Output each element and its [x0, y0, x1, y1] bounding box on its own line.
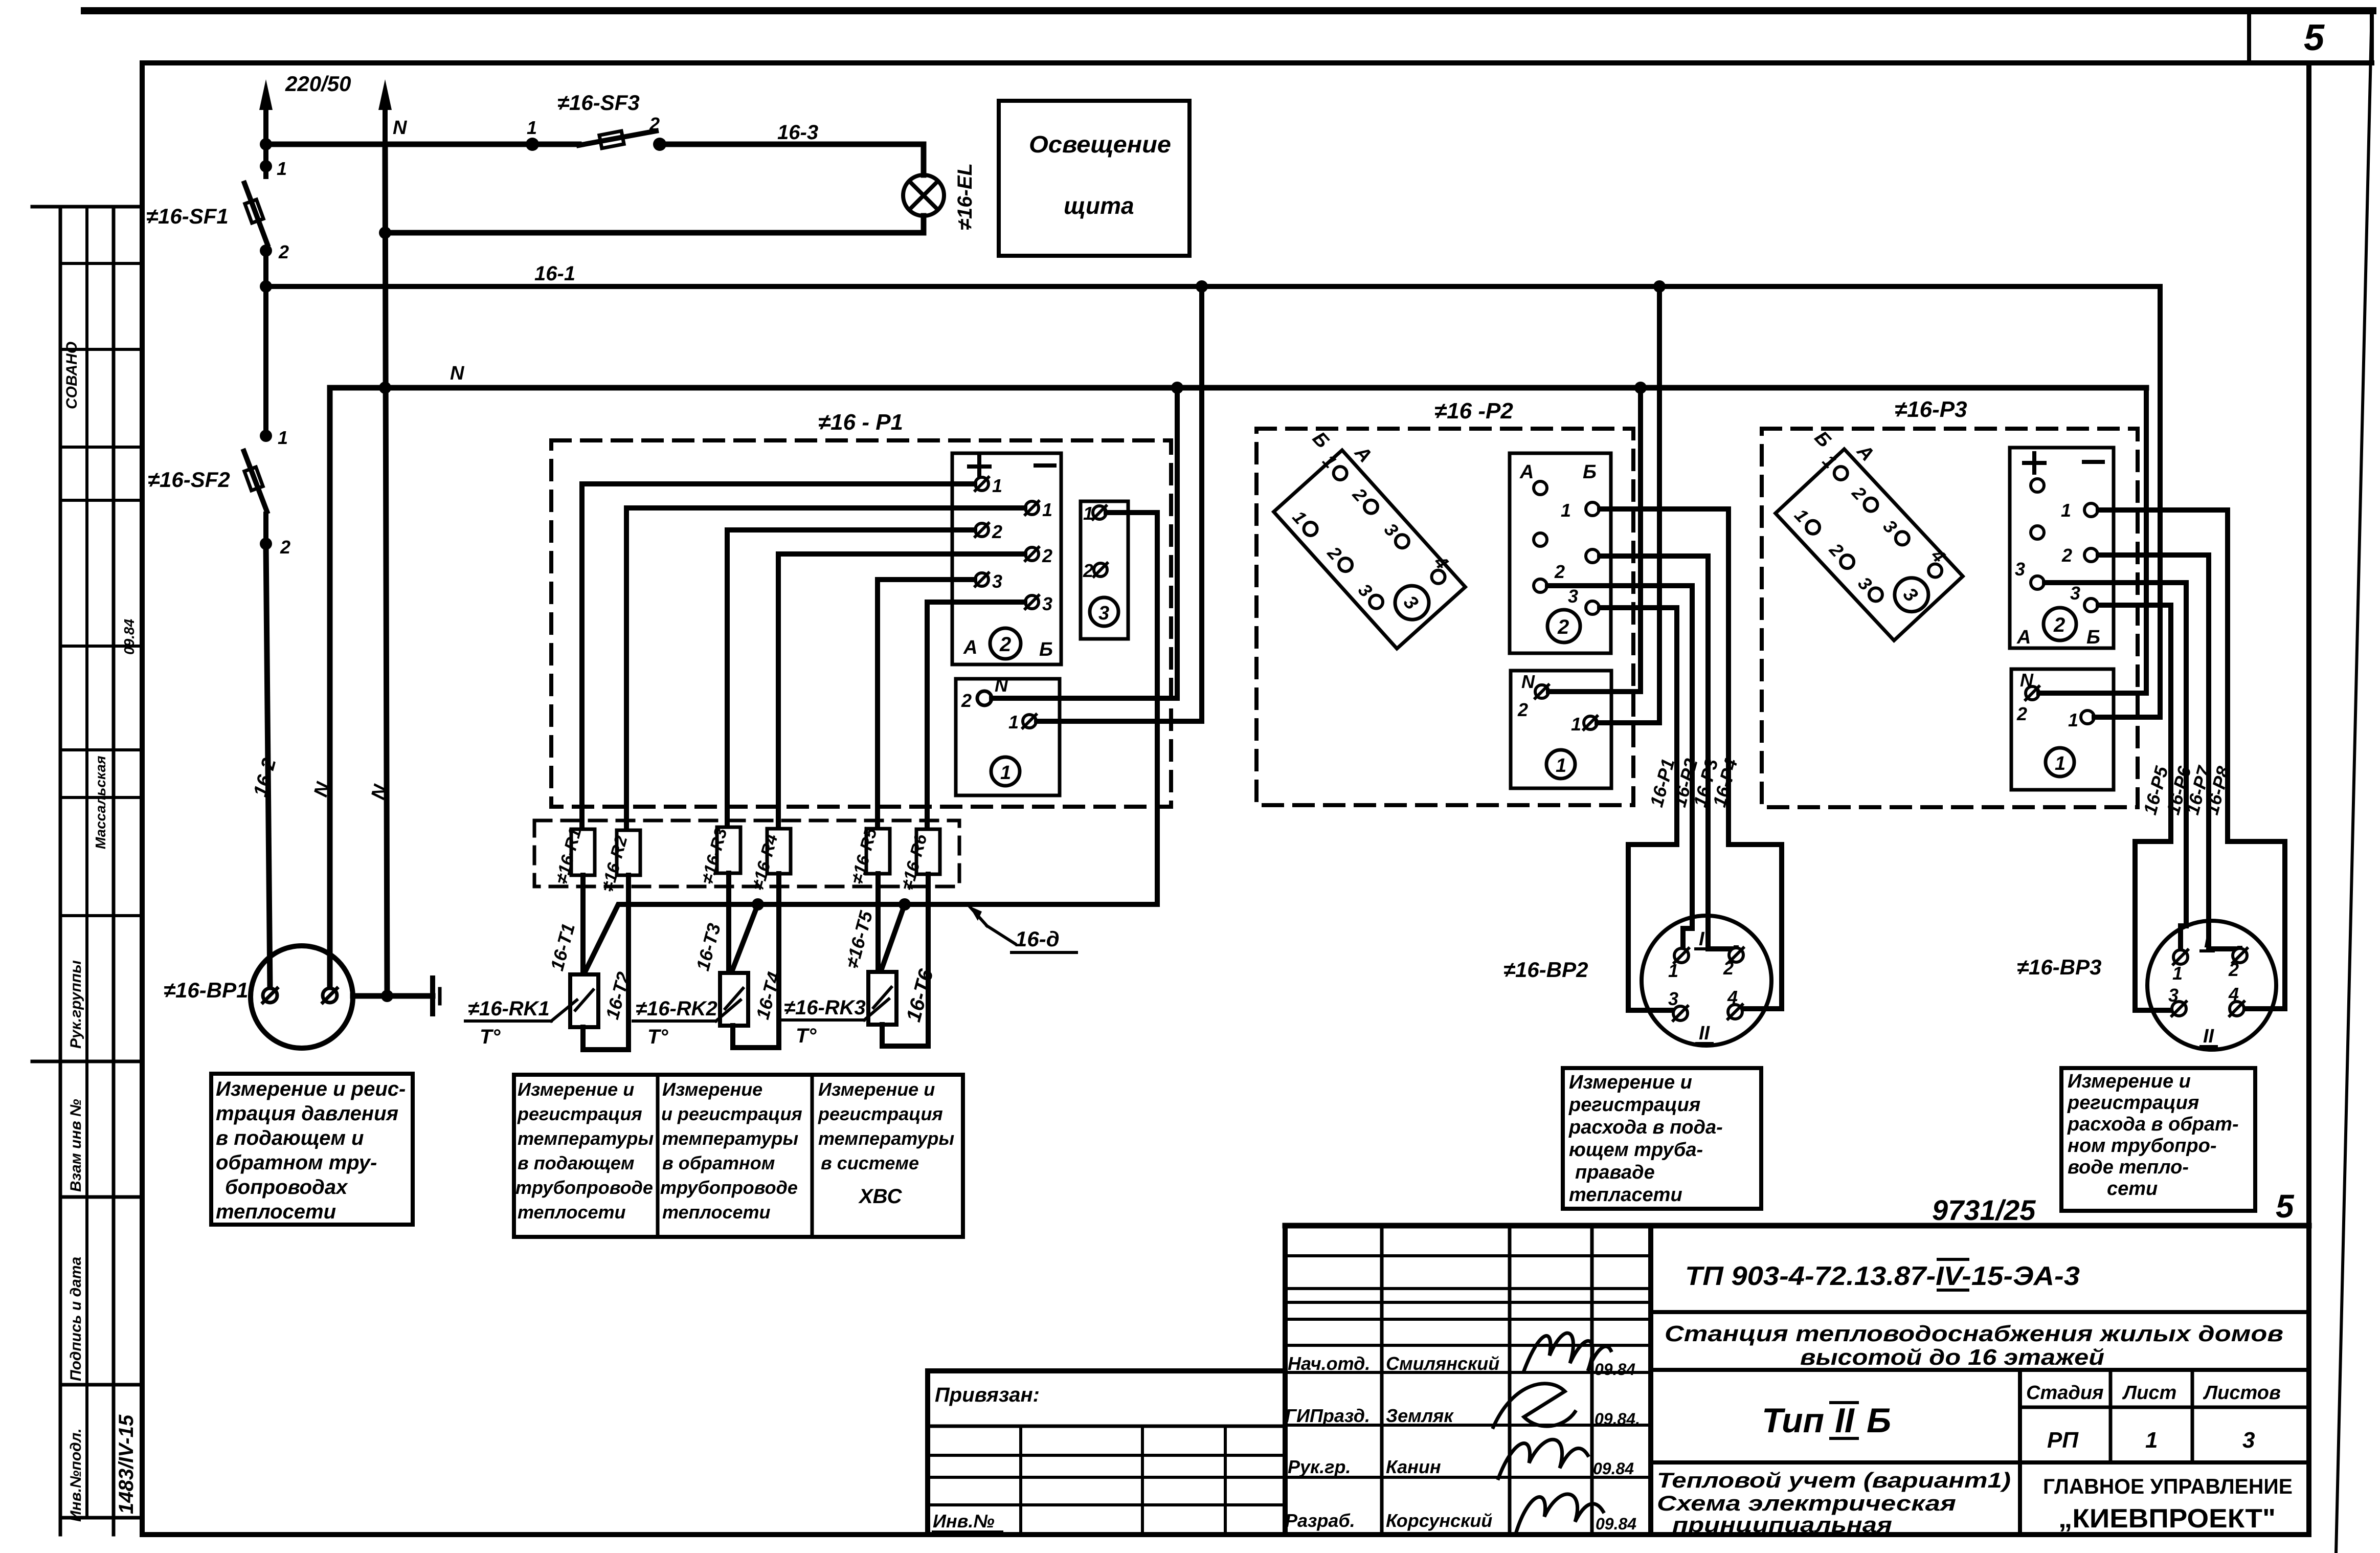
BP3 terminal 1 — [2173, 950, 2188, 964]
svg-text:3: 3 — [1568, 586, 1578, 607]
wire 16-P7 from P3 to BP3 — [2098, 555, 2240, 949]
ground symbol — [430, 978, 435, 1014]
wire P1 block3 to 16-d common — [585, 513, 1157, 973]
box Освещение щита — [999, 101, 1189, 256]
svg-text:Измерение и реис-: Измерение и реис- — [216, 1078, 406, 1100]
wire P1 input 6 — [927, 602, 1025, 829]
minus mark — [1036, 463, 1054, 468]
svg-text:N: N — [1521, 671, 1535, 692]
P1 small block 3 — [1081, 501, 1128, 639]
svg-text:теплосети: теплосети — [662, 1202, 771, 1223]
BP2 terminal 3 — [1673, 1006, 1688, 1020]
svg-text:трация давления: трация давления — [216, 1102, 398, 1125]
plus mark — [969, 457, 990, 476]
BP2 terminal 4 — [1728, 1005, 1742, 1019]
svg-text:А: А — [1519, 461, 1534, 483]
P1 block2 terminal R1 — [1025, 501, 1039, 515]
stage header row — [2020, 1406, 2309, 1409]
note box BP3 — [2061, 1068, 2255, 1211]
node RK3 tap — [899, 898, 911, 911]
wire 16-P6 from P3 to BP3 — [2045, 583, 2186, 950]
svg-text:1: 1 — [2068, 709, 2078, 730]
svg-text:3: 3 — [1042, 593, 1052, 614]
svg-text:1: 1 — [1008, 712, 1019, 733]
svg-text:Стадия: Стадия — [2026, 1382, 2103, 1404]
Привязан box — [928, 1371, 1285, 1535]
svg-text:N: N — [450, 363, 465, 384]
svg-text:сети: сети — [2107, 1178, 2158, 1200]
P2 block2 terminals column Б — [1586, 502, 1599, 614]
pressure sensor BP1 circle — [251, 946, 353, 1048]
svg-text:расхода в обрат-: расхода в обрат- — [2067, 1114, 2239, 1135]
svg-text:Лист: Лист — [2122, 1382, 2176, 1404]
svg-text:4: 4 — [2228, 984, 2239, 1005]
svg-text:3: 3 — [2070, 583, 2080, 604]
svg-text:в системе: в системе — [821, 1152, 919, 1173]
P3 block2 terminals column Б — [2084, 503, 2098, 612]
svg-text:Измерение и: Измерение и — [518, 1079, 634, 1100]
wire P1 input 2 — [626, 508, 1025, 830]
node 1 of SF1 — [260, 160, 272, 172]
node 2 of SF3 — [653, 138, 666, 151]
wire R6 (16-T6) — [926, 874, 931, 1046]
resistor R2 — [617, 830, 640, 875]
svg-text:Измерение и: Измерение и — [1569, 1072, 1692, 1093]
circuit breaker SF2 — [244, 451, 267, 544]
node RK2 tap — [752, 898, 764, 911]
P1 block2 terminal L2 — [975, 523, 989, 537]
svg-text:Т°: Т° — [480, 1026, 501, 1048]
svg-text:расхода в пода-: расхода в пода- — [1568, 1117, 1723, 1138]
svg-text:1: 1 — [2145, 1428, 2158, 1453]
svg-text:Рук.группы: Рук.группы — [68, 960, 84, 1049]
P1 block2 terminal R3 — [1025, 595, 1039, 609]
svg-text:трубопроводе: трубопроводе — [515, 1177, 653, 1198]
svg-text:Б: Б — [1867, 1401, 1891, 1440]
P2 terminal block 2 — [1510, 453, 1611, 653]
signature squiggle 3 — [1498, 1439, 1588, 1478]
svg-text:≠16-RK1: ≠16-RK1 — [468, 997, 550, 1020]
svg-text:16-1: 16-1 — [534, 262, 575, 285]
wire R2 (16-T2) — [626, 875, 631, 1050]
P2 rotated connector block 3 — [1254, 413, 1483, 649]
mains arrow line N — [383, 95, 388, 144]
svg-text:Инв.№подл.: Инв.№подл. — [68, 1428, 84, 1522]
svg-text:1: 1 — [2172, 963, 2183, 984]
svg-text:≠16-P3: ≠16-P3 — [1895, 397, 1967, 422]
svg-text:2: 2 — [961, 690, 972, 711]
wire P1 input 1 — [582, 484, 975, 829]
wire N main down to BP1 — [385, 144, 387, 996]
P3 rotated connector block 3 — [1756, 412, 1980, 640]
wire 16-P5 from P3 to BP3 — [2098, 605, 2172, 1010]
P3 block2 pin numbers — [2015, 500, 2080, 604]
wire 16-1 drop to P2 — [1597, 286, 1659, 723]
BP3 terminal 2 — [2233, 948, 2247, 963]
svg-text:Тепловой учет (вариант1): Тепловой учет (вариант1) — [1657, 1468, 2011, 1492]
svg-text:II: II — [1835, 1401, 1855, 1440]
wire P1 input 4 — [778, 554, 1025, 829]
P1 block2 terminal L3 — [975, 573, 989, 586]
wire P1 input 3 — [727, 530, 975, 827]
svg-text:Корсунский: Корсунский — [1386, 1510, 1492, 1531]
svg-text:Разраб.: Разраб. — [1285, 1510, 1355, 1531]
wire 16-P2 from P2 to BP2 — [1600, 586, 1692, 948]
lamp EL circle — [903, 175, 944, 216]
P3 terminal block 2 — [2010, 448, 2114, 648]
P1 block2 terminal L1 — [975, 477, 989, 491]
svg-text:≠16-SF3: ≠16-SF3 — [557, 91, 640, 115]
sheet outer right edge — [2336, 9, 2372, 1553]
svg-text:2: 2 — [2228, 959, 2239, 980]
wire 16-P8 from P3 to BP3 — [2098, 510, 2285, 1009]
svg-text:Привязан:: Привязан: — [935, 1384, 1040, 1406]
dashed resistor box — [534, 820, 959, 886]
plus mark — [2024, 453, 2045, 473]
svg-text:1: 1 — [2055, 753, 2065, 774]
svg-text:I: I — [1699, 928, 1705, 950]
wire RK3 bottom loop — [882, 1025, 928, 1046]
svg-text:2: 2 — [2053, 614, 2065, 636]
BP1 terminal 1 — [263, 988, 277, 1003]
svg-text:5: 5 — [2304, 17, 2325, 58]
sheet number box top right — [2249, 9, 2372, 63]
circled 3 — [1090, 597, 1118, 626]
svg-text:09.84.: 09.84. — [1595, 1410, 1640, 1428]
BP1 terminal 2 — [323, 988, 337, 1003]
sheet outer top border — [84, 7, 2373, 14]
svg-text:ТП 903-4-72.13.87-IV-15-ЭА-3: ТП 903-4-72.13.87-IV-15-ЭА-3 — [1685, 1261, 2080, 1291]
svg-text:А: А — [963, 637, 977, 658]
svg-text:Схема электрическая: Схема электрическая — [1657, 1491, 1956, 1515]
svg-text:РП: РП — [2047, 1428, 2079, 1453]
BP2 terminal 1 — [1674, 948, 1689, 963]
signature squiggle 1 — [1524, 1333, 1611, 1371]
svg-text:в подающем: в подающем — [518, 1152, 635, 1173]
svg-text:16-д: 16-д — [1015, 927, 1060, 951]
wire N bus drop to P3 — [2039, 388, 2146, 693]
svg-text:2: 2 — [1517, 699, 1528, 720]
BP3 terminal 4 — [2230, 1002, 2244, 1016]
circled 1 — [2046, 748, 2074, 776]
node 1 of SF2 — [260, 430, 272, 442]
node 1 of SF3 — [526, 138, 539, 151]
svg-text:09.84: 09.84 — [1595, 1360, 1635, 1379]
wire 16-1 end drop to P3 — [2094, 286, 2160, 717]
svg-text:N: N — [393, 117, 408, 139]
svg-text:1: 1 — [527, 117, 537, 138]
circuit breaker SF3 blade — [579, 131, 656, 148]
svg-text:Массальская: Массальская — [93, 756, 108, 849]
node 2 of SF1 — [260, 245, 272, 257]
svg-text:3: 3 — [1668, 988, 1678, 1009]
svg-text:≠16-SF2: ≠16-SF2 — [148, 468, 230, 492]
svg-text:1483/IV-15: 1483/IV-15 — [115, 1414, 138, 1514]
node SF1 to bus — [260, 280, 272, 293]
svg-text:3: 3 — [2015, 559, 2025, 580]
title doc number row — [1651, 1310, 2309, 1314]
svg-text:≠16 - P1: ≠16 - P1 — [818, 410, 903, 435]
svg-text:трубопроводе: трубопроводе — [660, 1177, 798, 1198]
svg-text:09.84: 09.84 — [1593, 1459, 1634, 1478]
circled 2 — [1547, 610, 1580, 642]
svg-text:Т°: Т° — [796, 1025, 817, 1047]
svg-text:бопроводах: бопроводах — [225, 1176, 348, 1199]
svg-text:Рук.гр.: Рук.гр. — [1288, 1456, 1351, 1477]
title signature table verticals — [1283, 1226, 1288, 1535]
svg-text:16-3: 16-3 — [777, 121, 818, 144]
P3 block 1 — [2011, 669, 2114, 790]
svg-text:2: 2 — [999, 633, 1011, 656]
P2 block2 terminals column A — [1534, 481, 1547, 592]
minus mark — [2084, 460, 2103, 464]
svg-text:Земляк: Земляк — [1386, 1405, 1454, 1426]
signature squiggle 2 — [1493, 1384, 1575, 1427]
svg-text:≠16-ВР2: ≠16-ВР2 — [1503, 958, 1588, 982]
P2 block2 pin numbers — [1554, 500, 1578, 607]
circled 2 — [990, 628, 1021, 659]
label 16-d with leader — [969, 906, 1015, 944]
svg-text:1: 1 — [1000, 762, 1011, 784]
svg-text:воде тепло-: воде тепло- — [2068, 1157, 2189, 1178]
svg-text:праваде: праваде — [1575, 1162, 1655, 1183]
P1 terminal strip block 2 — [952, 453, 1061, 664]
wire 2-terminal horizontal P2 — [1547, 583, 1600, 588]
left stamp row lines — [32, 205, 142, 209]
svg-text:Освещение: Освещение — [1029, 131, 1171, 158]
bus N — [330, 388, 2146, 988]
bus 16-1 — [266, 284, 2160, 289]
note table temperature — [514, 1075, 963, 1237]
svg-text:Листов: Листов — [2203, 1382, 2281, 1404]
svg-text:Подпись и дата: Подпись и дата — [68, 1257, 84, 1381]
svg-text:2: 2 — [1723, 958, 1734, 979]
svg-text:09.84: 09.84 — [121, 619, 137, 655]
svg-text:1: 1 — [1042, 499, 1052, 520]
note box BP1 — [211, 1074, 413, 1225]
svg-text:3: 3 — [2242, 1428, 2255, 1453]
svg-text:2: 2 — [1557, 616, 1569, 638]
wire top feed to SF3 — [266, 142, 579, 147]
circled 1 — [1546, 750, 1575, 779]
arrowhead N — [378, 79, 392, 110]
left stamp column verticals — [59, 207, 62, 1535]
wire RK1 bottom loop — [583, 1027, 628, 1050]
wire tap to RK3 — [881, 904, 905, 972]
dashed box #16-P3 — [1762, 429, 2138, 807]
P1 block 1 — [956, 679, 1060, 795]
resistor R5 — [866, 829, 890, 874]
wire N bus drop to P2 — [1548, 388, 1641, 692]
svg-text:регистрация: регистрация — [818, 1103, 943, 1124]
svg-text:СОВАНО: СОВАНО — [63, 342, 80, 409]
flow sensor BP2 — [1642, 916, 1771, 1046]
wire SF1 bus to SF2 — [263, 286, 268, 436]
svg-text:Т°: Т° — [647, 1026, 668, 1048]
drawing frame — [142, 60, 2372, 65]
wire N bus drop to P1 block1 — [992, 388, 1177, 698]
svg-text:щита: щита — [1064, 192, 1134, 219]
svg-text:1: 1 — [1556, 755, 1566, 776]
circled 2 — [2044, 608, 2076, 640]
svg-text:„КИЕВПРОЕКТ": „КИЕВПРОЕКТ" — [2058, 1504, 2276, 1534]
svg-text:в подающем и: в подающем и — [216, 1127, 364, 1149]
svg-text:1: 1 — [1668, 960, 1678, 981]
svg-text:II: II — [2203, 1026, 2215, 1047]
svg-text:1: 1 — [2061, 500, 2071, 521]
svg-text:9731/25: 9731/25 — [1932, 1194, 2036, 1226]
svg-text:3: 3 — [992, 571, 1002, 592]
P3 block2 terminals column A — [2031, 479, 2044, 589]
svg-text:температуры: температуры — [818, 1128, 954, 1149]
svg-text:высотой до 16 этажей: высотой до 16 этажей — [1800, 1345, 2104, 1370]
svg-text:ХВС: ХВС — [858, 1185, 903, 1208]
svg-text:2: 2 — [280, 537, 290, 558]
resistor R4 — [767, 829, 791, 874]
svg-text:температуры: температуры — [518, 1128, 654, 1149]
wire R3 to RK2 — [726, 873, 731, 973]
svg-text:температуры: температуры — [662, 1128, 798, 1149]
wire 16-1 bus drop to P1 block1 — [1037, 286, 1202, 721]
RTD RK1 — [570, 974, 598, 1027]
dashed box #16-P2 — [1256, 429, 1633, 805]
wire R5 to RK3 — [875, 874, 881, 972]
svg-text:обратном тру-: обратном тру- — [216, 1151, 377, 1174]
note box BP2 — [1563, 1068, 1761, 1209]
wire R4 (16-T4) — [776, 874, 781, 1048]
svg-text:1: 1 — [1561, 500, 1571, 521]
svg-text:Б: Б — [2086, 627, 2100, 648]
svg-text:Смилянский: Смилянский — [1386, 1353, 1499, 1374]
svg-text:≠16-EL: ≠16-EL — [954, 163, 976, 230]
svg-text:принципиальная: принципиальная — [1672, 1513, 1892, 1537]
wire RK2 bottom loop — [733, 1026, 779, 1048]
svg-text:II: II — [1699, 1023, 1711, 1044]
svg-text:≠16 -P2: ≠16 -P2 — [1434, 398, 1513, 424]
svg-text:ющем труба-: ющем труба- — [1569, 1139, 1703, 1161]
resistor R1 — [571, 829, 595, 875]
svg-text:Измерение: Измерение — [662, 1079, 762, 1100]
svg-text:1: 1 — [1571, 714, 1581, 735]
P1 block2 terminal R2 — [1025, 547, 1039, 561]
svg-text:Взам инв №: Взам инв № — [68, 1099, 84, 1192]
svg-text:2: 2 — [649, 114, 660, 135]
svg-text:Б: Б — [1583, 461, 1597, 483]
wire tap to RK2 — [731, 904, 758, 973]
dashed box #16-P1 — [551, 440, 1171, 807]
resistor R3 — [717, 827, 740, 873]
svg-text:≠16-ВР1: ≠16-ВР1 — [164, 978, 248, 1002]
node 2 of SF2 — [260, 538, 272, 550]
svg-text:2: 2 — [2016, 703, 2027, 724]
wire 16-P3 from P2 to BP2 — [1600, 556, 1736, 949]
svg-text:Б: Б — [1039, 639, 1053, 660]
arrowhead L — [259, 79, 273, 110]
svg-text:≠16-ВР3: ≠16-ВР3 — [2017, 955, 2101, 979]
svg-text:Измерение и: Измерение и — [2068, 1071, 2191, 1092]
circled 1 — [991, 757, 1020, 786]
svg-text:2: 2 — [278, 241, 289, 262]
svg-text:ГЛАВНОЕ УПРАВЛЕНИЕ: ГЛАВНОЕ УПРАВЛЕНИЕ — [2043, 1474, 2293, 1498]
wire 16-3 to lamp — [660, 144, 924, 175]
svg-text:N: N — [995, 675, 1008, 696]
svg-text:тепласети: тепласети — [1569, 1184, 1682, 1206]
svg-text:теплосети: теплосети — [518, 1202, 626, 1223]
svg-text:1: 1 — [278, 427, 288, 448]
svg-text:теплосети: теплосети — [216, 1201, 336, 1223]
svg-text:4: 4 — [1727, 987, 1738, 1008]
svg-text:2: 2 — [2061, 545, 2072, 566]
wire lamp return to N — [385, 216, 924, 233]
svg-text:5: 5 — [2276, 1188, 2295, 1225]
svg-text:1: 1 — [992, 475, 1002, 496]
svg-text:и регистрация: и регистрация — [661, 1103, 802, 1124]
svg-text:3: 3 — [2168, 985, 2179, 1006]
node dot at SF1 top — [260, 138, 272, 150]
RTD RK3 — [868, 972, 896, 1025]
svg-text:регистрация: регистрация — [517, 1103, 642, 1124]
svg-text:Станция тепловодоснабжения жил: Станция тепловодоснабжения жилых домов — [1665, 1321, 2283, 1346]
resistor R6 — [916, 829, 940, 874]
signature table rows — [1285, 1254, 1651, 1257]
svg-text:09.84: 09.84 — [1596, 1515, 1636, 1533]
svg-text:Инв.№: Инв.№ — [933, 1511, 995, 1532]
title block top line — [1285, 1223, 2309, 1229]
svg-text:в обратном: в обратном — [662, 1152, 775, 1173]
circuit breaker SF1 — [244, 144, 267, 286]
svg-text:3: 3 — [1098, 603, 1109, 624]
svg-text:2: 2 — [1042, 545, 1052, 566]
svg-text:регистрация: регистрация — [1568, 1094, 1700, 1116]
svg-text:регистрация: регистрация — [2067, 1092, 2199, 1114]
wire 16-P4 from P2 to BP2 — [1600, 509, 1782, 1009]
svg-text:А: А — [2016, 627, 2031, 648]
svg-text:ном трубопро-: ном трубопро- — [2068, 1135, 2216, 1157]
svg-text:Тип: Тип — [1762, 1401, 1824, 1440]
wire 16-2 to BP1 — [266, 544, 270, 988]
svg-text:I: I — [2204, 930, 2210, 952]
flow sensor BP3 — [2147, 921, 2276, 1050]
signature squiggle 4 — [1516, 1494, 1603, 1532]
wire 16-P1 from P2 to BP2 — [1600, 608, 1677, 1010]
wire P1 input 5 — [878, 580, 975, 829]
svg-text:2: 2 — [1083, 560, 1093, 581]
P2 block 1 — [1511, 671, 1611, 788]
BP3 terminal 3 — [2172, 1002, 2186, 1016]
RTD RK2 — [720, 973, 748, 1026]
node N to ground wire — [381, 990, 393, 1002]
BP2 terminal 2 — [1729, 948, 1743, 962]
lamp EL cross — [909, 181, 938, 210]
svg-text:2: 2 — [992, 521, 1002, 542]
svg-text:ГИПразд.: ГИПразд. — [1285, 1405, 1370, 1426]
svg-text:220/50: 220/50 — [285, 72, 351, 96]
svg-text:Измерение и: Измерение и — [818, 1079, 935, 1100]
svg-text:≠16-RK2: ≠16-RK2 — [636, 997, 717, 1020]
svg-text:Нач.отд.: Нач.отд. — [1288, 1353, 1370, 1374]
svg-text:1: 1 — [277, 158, 287, 179]
title object name row — [1651, 1368, 2309, 1372]
wire BP1 to ground — [353, 993, 433, 999]
svg-text:2: 2 — [1554, 561, 1565, 582]
node N vertical to N bus — [379, 382, 391, 394]
vertical divider type/stage — [2018, 1370, 2022, 1535]
mains arrow line L (220V feed) — [263, 95, 268, 144]
wire R1 to RK1 — [580, 875, 586, 974]
node on N vertical — [379, 227, 391, 239]
svg-text:Канин: Канин — [1386, 1456, 1441, 1477]
svg-text:≠16-SF1: ≠16-SF1 — [146, 204, 229, 228]
